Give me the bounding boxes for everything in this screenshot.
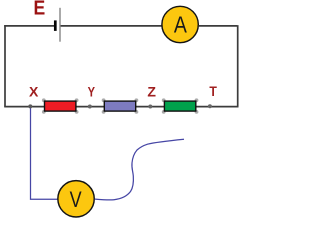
resistor Z corner nubs	[162, 98, 199, 113]
resistor Z (green)	[164, 101, 195, 111]
node Z dot	[148, 105, 152, 109]
wire bottom row	[4, 106, 238, 108]
wire left vertical	[4, 25, 6, 107]
svg-text:X: X	[29, 84, 39, 100]
svg-text:E: E	[34, 0, 46, 20]
resistor Y corner nubs	[102, 98, 139, 113]
resistor X (red)	[45, 101, 76, 111]
resistor Y (purple)	[104, 101, 135, 111]
node Y dot	[88, 105, 92, 109]
node X dot	[28, 104, 32, 108]
wire ammeter to right corner	[199, 25, 238, 27]
ammeter U1 circle	[162, 6, 198, 42]
svg-text:Z: Z	[147, 84, 156, 100]
wire top-left horizontal	[4, 25, 54, 27]
voltmeter blue wire from node X down and right	[31, 107, 58, 200]
battery E long thin plate	[59, 8, 61, 42]
wire right vertical	[237, 25, 239, 107]
voltmeter free lead wire (S-curve)	[95, 139, 184, 200]
svg-text:T: T	[209, 83, 217, 99]
svg-text:A: A	[174, 12, 188, 38]
wire battery to ammeter	[61, 25, 162, 27]
battery E short thick plate	[54, 20, 57, 31]
resistor X corner nubs	[42, 98, 79, 113]
node T dot	[208, 104, 212, 108]
voltmeter U2 circle	[58, 181, 94, 217]
svg-text:V: V	[70, 187, 82, 212]
svg-text:Y: Y	[88, 83, 96, 99]
